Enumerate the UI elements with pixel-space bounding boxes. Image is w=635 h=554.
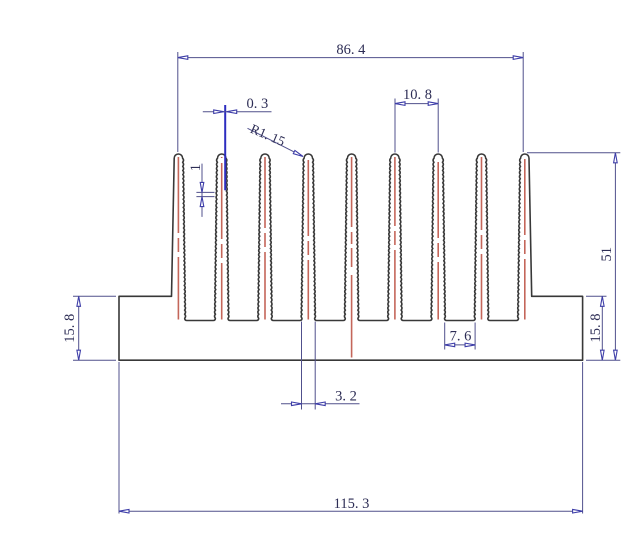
svg-text:3. 2: 3. 2: [335, 388, 357, 404]
dimension 86.4 top: [178, 42, 523, 152]
fin 9 centerline: [524, 157, 526, 320]
fin 3 centerline: [264, 157, 266, 320]
dimension 15.8 right: [586, 296, 607, 360]
svg-text:15. 8: 15. 8: [588, 314, 604, 343]
heatsink extrusion profile outline: [119, 154, 583, 360]
svg-text:15. 8: 15. 8: [62, 314, 78, 343]
svg-text:10. 8: 10. 8: [403, 87, 432, 103]
svg-text:0. 3: 0. 3: [247, 96, 269, 112]
dimension 15.8 left: [62, 296, 116, 360]
svg-text:115. 3: 115. 3: [334, 496, 370, 512]
svg-text:7. 6: 7. 6: [450, 329, 472, 345]
fin 8 centerline: [481, 157, 483, 320]
fin 4 centerline: [307, 157, 309, 320]
dimension 0.3 serration depth: [203, 96, 272, 190]
svg-text:51: 51: [599, 247, 615, 261]
dimension 7.6 channel width: [445, 323, 475, 350]
dimension 3.2 fin thickness: [281, 322, 360, 410]
dimension 51 right: [527, 153, 620, 360]
radius leader R1.15: [248, 121, 304, 156]
fin 7 centerline: [437, 157, 439, 320]
fin 2 centerline: [221, 157, 223, 320]
dimension 115.3 bottom: [119, 362, 583, 514]
dimension 1 serration pitch: [188, 164, 215, 217]
fin 6 centerline: [394, 157, 396, 320]
svg-text:1: 1: [188, 164, 204, 171]
fin 1 centerline: [177, 157, 179, 320]
svg-text:86. 4: 86. 4: [336, 42, 366, 58]
dimension 10.8: [395, 87, 438, 153]
fin 5 centerline: [351, 157, 353, 358]
